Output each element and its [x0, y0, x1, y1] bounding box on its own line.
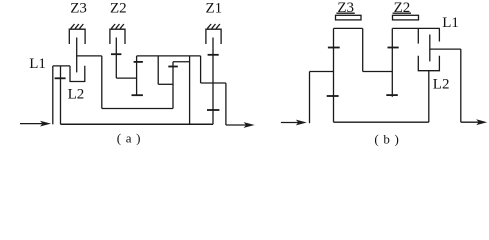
svg-text:L2: L2: [433, 77, 450, 93]
shaft V5: [200, 56, 202, 83]
clutch L1 cup right wall: [438, 28, 440, 41]
wire shaft B to output: [430, 48, 461, 50]
output shaft (diagram b): [460, 49, 462, 122]
lower gear on V2: [132, 94, 143, 96]
label Z2 with underline (diagram b): [394, 0, 411, 16]
left drum top (diagram b): [334, 27, 363, 29]
output arrow (diagram a): [226, 122, 255, 128]
bottom rail (diagram a): [61, 123, 214, 125]
left drum left wall / sun shaft: [333, 28, 335, 122]
svg-text:Z1: Z1: [205, 1, 222, 17]
svg-text:Z3: Z3: [70, 1, 87, 17]
wire V3 to V4: [158, 83, 173, 85]
svg-text:L1: L1: [29, 56, 46, 72]
clutch L2 cup (diagram b): [418, 56, 439, 71]
gear on Z2 shaft: [111, 53, 121, 55]
label Z2 (diagram a): [110, 1, 127, 17]
upper gear on Z1 shaft: [208, 54, 219, 56]
right drum top (diagram b): [392, 27, 440, 29]
gear on hung shaft: [55, 77, 66, 79]
clutch L1 cup left wall: [417, 28, 419, 43]
wire V4 top to V6: [173, 61, 190, 63]
clutch input shaft B: [429, 35, 431, 62]
lower gear on right drum wall: [386, 94, 398, 96]
shaft V4: [172, 62, 174, 109]
lower gear on left wall: [327, 95, 339, 97]
shaft V3: [157, 56, 159, 84]
svg-text:( b ): ( b ): [374, 132, 399, 147]
lower gear on Z1 shaft: [207, 109, 219, 111]
wire input shaft to clutch cup: [53, 65, 70, 67]
brake Z3 shaft: [76, 38, 78, 73]
rail B: [137, 55, 201, 57]
underline of Z2: [393, 12, 411, 14]
svg-text:Z2: Z2: [110, 1, 127, 17]
caption ( b ): [374, 132, 399, 147]
label L2 (diagram a): [68, 87, 85, 103]
label Z1 (diagram a): [205, 1, 222, 17]
hung gear shaft on input: [60, 66, 62, 124]
label Z3 (diagram a): [70, 1, 87, 17]
label Z3 with underline (diagram b): [337, 0, 354, 16]
rail A from Z3 shaft: [77, 55, 102, 57]
gear on shaft V4: [168, 66, 178, 68]
right drum left wall shaft: [391, 28, 393, 96]
input shaft (diagram a): [52, 66, 54, 124]
input shaft (diagram b): [309, 72, 311, 124]
underline of Z3: [336, 12, 354, 14]
left drum right wall: [362, 28, 364, 71]
output arrow (diagram b): [461, 119, 487, 125]
caption ( a ): [117, 131, 141, 146]
brake Z3 fixed bracket with hatching: [69, 24, 85, 44]
lower shaft from L2 cup: [428, 71, 430, 123]
svg-text:( a ): ( a ): [117, 131, 141, 146]
brake Z1 shaft: [212, 38, 214, 125]
bottom rail (diagram b): [334, 121, 429, 123]
upper gear on V2: [134, 61, 143, 63]
wire V5 to output shaft: [201, 82, 226, 84]
input arrow (diagram a): [20, 121, 51, 127]
label L1 (diagram a): [29, 56, 46, 72]
wire V1 down: [101, 56, 103, 109]
brake Z2 fixed bracket with hatching: [110, 24, 125, 44]
label L2 (diagram b): [433, 77, 450, 93]
svg-text:L2: L2: [68, 87, 85, 103]
wire drum walls link: [363, 71, 393, 73]
brake band Z3 (diagram b): [336, 15, 362, 20]
input wire (diagram b): [310, 71, 334, 73]
shaft V2: [136, 56, 138, 96]
label L1 (diagram b): [442, 15, 459, 31]
svg-text:L1: L1: [442, 15, 459, 31]
upper gear on right drum wall: [388, 47, 399, 49]
brake Z2 shaft: [115, 38, 117, 79]
brake band Z2 (diagram b): [393, 15, 419, 20]
brake Z1 fixed bracket with hatching: [206, 24, 221, 44]
clutch L2 cup (diagram a): [70, 66, 85, 82]
shaft V6: [189, 56, 191, 124]
output shaft (diagram a): [225, 83, 227, 125]
wire Z2 shaft to V2: [116, 77, 136, 79]
upper gear on left wall: [328, 47, 340, 49]
input arrow (diagram b): [281, 120, 307, 126]
wire bottom link V1 to V4: [102, 108, 173, 110]
